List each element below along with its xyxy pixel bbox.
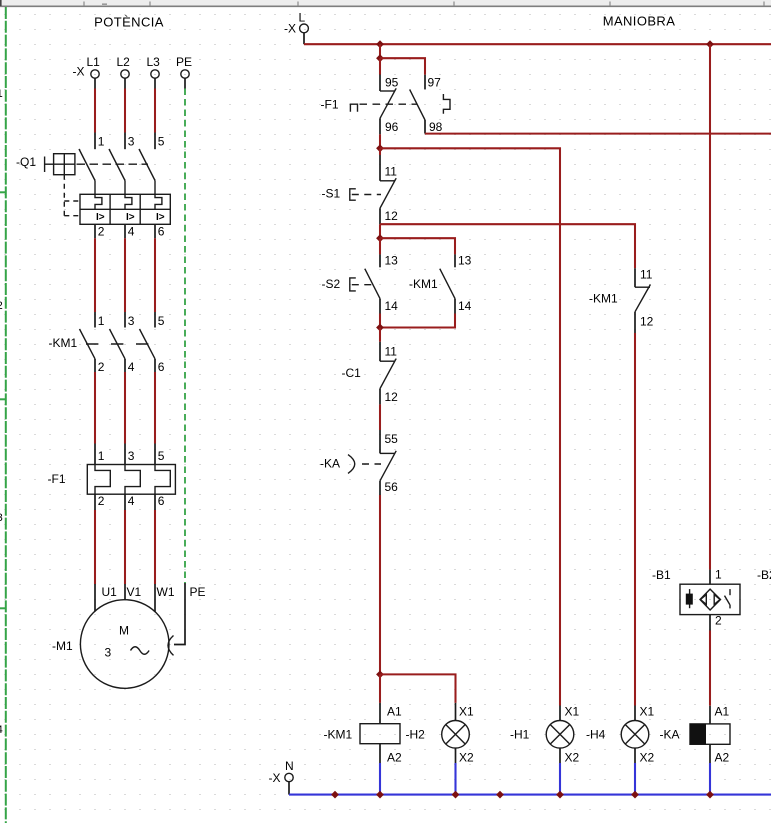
svg-text:-Q1: -Q1 (16, 155, 36, 169)
terminal -X L (284, 11, 308, 36)
svg-text:2: 2 (98, 494, 105, 508)
wire F1-96 down (379, 118, 381, 148)
wire KM1 to F1 phase1 (94, 359, 96, 465)
contact KA 55-56 NC timer (320, 432, 398, 494)
contactor KM1 link dashes (86, 343, 149, 345)
svg-text:4: 4 (128, 360, 135, 374)
wire F1-98 to right edge (425, 120, 771, 134)
wire F1 to M1 phase3 (154, 494, 156, 611)
svg-text:M: M (119, 624, 129, 638)
wire to S1-11 (379, 148, 381, 181)
svg-text:3: 3 (128, 314, 135, 328)
wire branch to H2 lamp (380, 674, 456, 720)
svg-text:X1: X1 (459, 705, 474, 719)
overload relay F1 bottom pins 2 4 6 (98, 494, 165, 508)
wire H4 X2 to bus (634, 748, 636, 795)
svg-text:-X: -X (269, 771, 281, 785)
svg-text:1: 1 (98, 314, 105, 328)
svg-text:-S1: -S1 (322, 187, 341, 201)
node bus 3 (452, 791, 460, 799)
motor M1 terminal labels (102, 585, 206, 599)
svg-text:6: 6 (158, 360, 165, 374)
wire H2 X2 to bus (455, 748, 457, 795)
svg-text:13: 13 (458, 254, 472, 268)
svg-text:6: 6 (158, 494, 165, 508)
svg-text:11: 11 (385, 345, 398, 359)
coil KM1 (324, 705, 403, 765)
svg-text:1: 1 (0, 88, 3, 100)
svg-text:-F1: -F1 (321, 98, 339, 112)
contact F1 97-98 NO (410, 76, 443, 135)
wire branch to KM1-11 column (380, 224, 635, 268)
wire N terminal lead (288, 782, 290, 795)
wire B1-2 to KA coil A1 (709, 615, 711, 724)
lamp H2 (406, 705, 475, 765)
svg-text:-KM1: -KM1 (324, 728, 353, 742)
wire KA A2 to bus (709, 744, 711, 794)
wire PE green (184, 89, 186, 584)
terminal -X L2 (117, 55, 131, 78)
wire F1 to M1 phase2 (124, 494, 126, 600)
terminal -X L1 (87, 55, 101, 78)
node KM1 coil / H2 branch (376, 671, 384, 679)
breaker Q1 pole 1 (79, 135, 105, 195)
wire L terminal lead (303, 33, 305, 44)
coil KA timer (660, 705, 731, 765)
svg-text:-KA: -KA (660, 728, 680, 742)
svg-text:5: 5 (158, 449, 165, 463)
svg-text:6: 6 (158, 225, 165, 239)
svg-text:12: 12 (640, 315, 654, 329)
breaker Q1 pole 3 (139, 135, 165, 195)
svg-text:14: 14 (385, 299, 399, 313)
wire KM1 to F1 phase3 (154, 359, 156, 465)
contact F1 95-96 NC (380, 76, 399, 135)
wire Q1 to KM1 phase2 (124, 224, 126, 327)
terminal -X PE (176, 55, 192, 78)
F1 reset hook (443, 94, 450, 114)
svg-text:L2: L2 (117, 55, 131, 69)
svg-text:95: 95 (385, 76, 399, 90)
pushbutton S1 NC (322, 165, 399, 224)
svg-text:V1: V1 (127, 585, 142, 599)
wire PE to motor frame (174, 583, 185, 645)
node bus 4 (496, 791, 504, 799)
svg-text:4: 4 (0, 724, 3, 736)
svg-text:1: 1 (98, 135, 105, 149)
svg-text:A2: A2 (387, 751, 402, 765)
svg-text:14: 14 (458, 299, 472, 313)
breaker Q1 pole 2 (109, 135, 135, 195)
wire Q1 to KM1 phase3 (154, 224, 156, 327)
svg-text:96: 96 (385, 120, 399, 134)
breaker Q1 link bar (77, 163, 149, 165)
lamp H4 (586, 705, 655, 765)
node bus 2 (376, 791, 384, 799)
svg-text:-B1: -B1 (652, 568, 671, 582)
svg-text:X2: X2 (565, 751, 580, 765)
wire branch to KM1-13 (380, 238, 455, 267)
svg-text:A1: A1 (387, 705, 402, 719)
svg-text:N: N (285, 759, 294, 773)
svg-text:A2: A2 (715, 751, 730, 765)
svg-text:A1: A1 (715, 705, 730, 719)
terminal -X L3 (147, 55, 161, 78)
node bus 6 (631, 791, 639, 799)
svg-text:-C1: -C1 (342, 366, 362, 380)
overload relay F1 top pins 1 3 5 (98, 449, 165, 463)
wire L2 to Q1 (124, 89, 126, 150)
svg-text:MANIOBRA: MANIOBRA (603, 14, 676, 29)
wire branch to F1-97 (380, 58, 425, 89)
wire B1 column top (709, 44, 711, 584)
svg-text:11: 11 (385, 165, 398, 179)
svg-text:-X: -X (284, 22, 296, 36)
wire KA-56 down to coil junction (379, 481, 381, 675)
wire H1 lamp lead (559, 706, 561, 721)
svg-text:12: 12 (385, 209, 399, 223)
wire S1-12 down (379, 208, 381, 238)
wire PE lead (184, 78, 186, 88)
svg-text:4: 4 (128, 225, 135, 239)
svg-text:5: 5 (158, 314, 165, 328)
wire to S2-13 (379, 238, 381, 267)
contactor KM1 bottom pins 2 4 6 (98, 360, 165, 374)
svg-text:2: 2 (98, 360, 105, 374)
node L rail / KM column (376, 40, 384, 48)
svg-text:-F1: -F1 (48, 472, 66, 486)
svg-text:L: L (299, 11, 306, 25)
svg-text:X2: X2 (640, 751, 655, 765)
breaker Q1 bottom pins 2 4 6 (98, 225, 165, 239)
contactor KM1 pole 3 (140, 314, 165, 359)
contact KM1 11-12 NC (589, 268, 654, 329)
svg-text:-KM1: -KM1 (49, 336, 78, 350)
contact C1 11-12 NC (342, 345, 399, 405)
wire rail to F1-95 (379, 44, 381, 58)
svg-text:12: 12 (385, 390, 399, 404)
node bus 1 (331, 791, 339, 799)
svg-text:98: 98 (429, 120, 443, 134)
svg-text:-H2: -H2 (406, 728, 426, 742)
svg-text:2: 2 (715, 614, 722, 628)
svg-text:-KA: -KA (320, 457, 340, 471)
svg-text:3: 3 (0, 512, 3, 524)
breaker Q1 trip linkage (64, 175, 80, 216)
wire KM1-14 down to junction (380, 299, 455, 328)
svg-text:1: 1 (715, 568, 722, 582)
terminal -X N (269, 759, 294, 785)
node F1 branch (376, 54, 384, 62)
wire KM1 coil A2 to bus (379, 744, 381, 795)
svg-text:3: 3 (104, 646, 111, 660)
svg-text:2: 2 (98, 225, 105, 239)
svg-text:-B2: -B2 (757, 568, 771, 582)
node parallel join (376, 324, 384, 332)
wire KM1-12 to H4 lamp (634, 312, 636, 721)
svg-text:PE: PE (176, 55, 192, 69)
wire F1 to M1 phase1 (94, 494, 96, 611)
svg-text:4: 4 (128, 494, 135, 508)
wire L1 lead (94, 78, 96, 88)
wire L phase rail (304, 43, 771, 45)
svg-text:X1: X1 (640, 705, 655, 719)
contactor KM1 pole 2 (110, 314, 135, 359)
svg-text:11: 11 (640, 268, 653, 282)
svg-text:POTÈNCIA: POTÈNCIA (94, 15, 164, 30)
pushbutton S2 NO (322, 254, 399, 314)
svg-text:1: 1 (98, 449, 105, 463)
wire L3 to Q1 (154, 89, 156, 150)
wire KM1 to F1 phase2 (124, 359, 126, 465)
node L rail / B1 column (706, 40, 714, 48)
svg-text:-M1: -M1 (52, 639, 73, 653)
motor M1 body (80, 600, 169, 689)
svg-text:-H1: -H1 (510, 728, 530, 742)
breaker Q1 magnetic trip labels (96, 212, 165, 223)
overload relay F1 body (87, 465, 175, 495)
svg-text:-KM1: -KM1 (589, 292, 618, 306)
wire L1 to Q1 (94, 89, 96, 150)
svg-text:PE: PE (190, 585, 206, 599)
svg-text:I>: I> (126, 212, 135, 223)
svg-text:-X: -X (73, 65, 85, 79)
wire to C1-11 (379, 328, 381, 362)
svg-text:-S2: -S2 (322, 277, 341, 291)
lamp H1 (510, 705, 580, 765)
svg-text:U1: U1 (102, 585, 118, 599)
svg-text:X2: X2 (459, 751, 474, 765)
wire C1-12 to KA-55 (379, 389, 381, 454)
svg-text:55: 55 (385, 432, 399, 446)
svg-text:5: 5 (158, 135, 165, 149)
node bus 5 (556, 791, 564, 799)
svg-text:I>: I> (156, 212, 165, 223)
svg-text:L1: L1 (87, 55, 101, 69)
wire S2-14 down (379, 299, 381, 328)
wire Q1 to KM1 phase1 (94, 224, 96, 327)
breaker Q1 trip block (80, 194, 170, 224)
wire to F1-95 (379, 58, 381, 91)
node bus 7 (706, 791, 714, 799)
wire L3 lead (154, 78, 156, 88)
svg-text:13: 13 (385, 254, 399, 268)
wire L2 lead (124, 78, 126, 88)
svg-text:-KM1: -KM1 (409, 277, 438, 291)
breaker Q1 handle (45, 154, 75, 175)
wire neutral bus (289, 794, 771, 796)
svg-text:2: 2 (0, 300, 3, 312)
svg-text:X1: X1 (565, 705, 580, 719)
svg-text:56: 56 (385, 480, 399, 494)
sensor B1 (652, 568, 740, 628)
F1 trip actuator (321, 98, 418, 112)
svg-text:I>: I> (96, 212, 105, 223)
svg-text:3: 3 (128, 135, 135, 149)
wire to KM1 coil A1 (379, 674, 381, 723)
wire branch to H1 column (380, 148, 560, 705)
svg-text:L3: L3 (147, 55, 161, 69)
node S1 top branch (376, 144, 384, 152)
motor M1 PE chassis arc (168, 636, 174, 656)
svg-text:3: 3 (128, 449, 135, 463)
contact KM1 13-14 NO (409, 254, 472, 314)
svg-text:W1: W1 (157, 585, 175, 599)
wire H1 X2 to bus (559, 748, 561, 795)
node S2 branch (376, 234, 384, 242)
contactor KM1 pole 1 (80, 314, 105, 359)
svg-text:-H4: -H4 (586, 728, 606, 742)
svg-text:97: 97 (428, 76, 442, 90)
